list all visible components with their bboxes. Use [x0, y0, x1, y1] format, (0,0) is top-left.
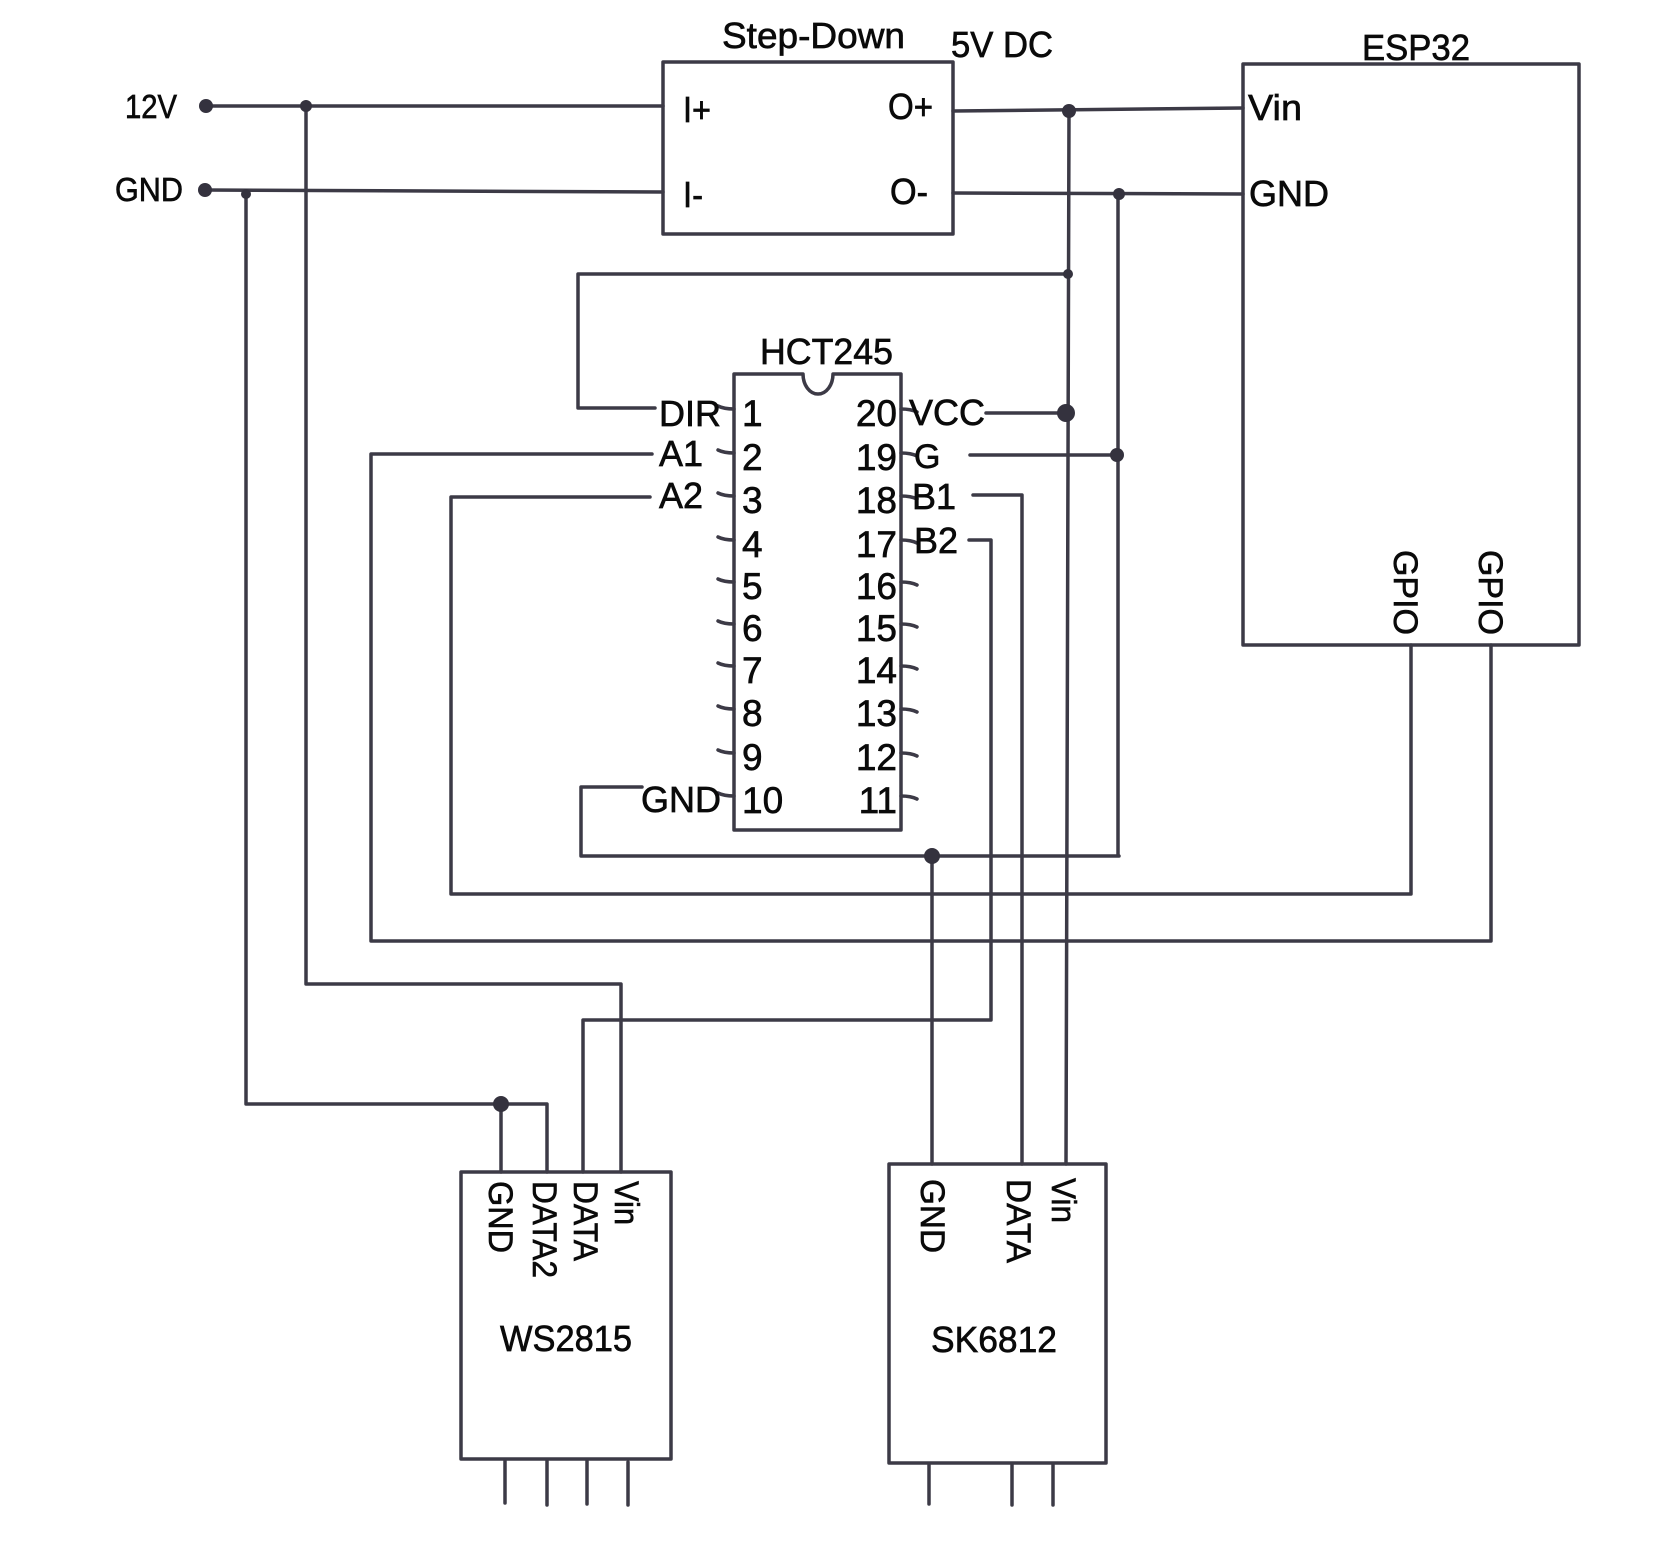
svg-text:3: 3 — [742, 480, 763, 521]
svg-text:SK6812: SK6812 — [931, 1319, 1057, 1360]
svg-text:18: 18 — [856, 480, 897, 521]
svg-text:GPIO: GPIO — [1386, 550, 1424, 635]
svg-text:9: 9 — [742, 737, 763, 778]
svg-text:B1: B1 — [912, 476, 956, 517]
svg-text:DATA2: DATA2 — [525, 1181, 563, 1278]
svg-text:8: 8 — [742, 693, 763, 734]
svg-text:Vin: Vin — [1044, 1178, 1082, 1223]
svg-text:17: 17 — [856, 524, 897, 565]
svg-text:WS2815: WS2815 — [500, 1318, 632, 1359]
svg-text:HCT245: HCT245 — [760, 331, 893, 372]
svg-text:20: 20 — [856, 393, 897, 434]
svg-text:GND: GND — [481, 1181, 519, 1253]
svg-text:5V DC: 5V DC — [951, 24, 1053, 65]
svg-text:19: 19 — [856, 437, 897, 478]
svg-text:DATA: DATA — [566, 1181, 604, 1261]
svg-text:I+: I+ — [683, 89, 711, 130]
svg-text:10: 10 — [742, 780, 783, 821]
svg-text:2: 2 — [742, 437, 763, 478]
svg-text:A1: A1 — [659, 433, 703, 474]
svg-text:G: G — [914, 438, 940, 476]
svg-text:16: 16 — [856, 566, 897, 607]
svg-text:14: 14 — [856, 650, 897, 691]
svg-text:DATA: DATA — [999, 1179, 1037, 1263]
svg-text:GND: GND — [641, 779, 721, 820]
svg-text:6: 6 — [742, 608, 763, 649]
svg-text:15: 15 — [856, 608, 897, 649]
svg-text:O-: O- — [890, 171, 928, 212]
svg-text:12V: 12V — [125, 88, 177, 125]
svg-text:11: 11 — [859, 780, 897, 821]
svg-text:5: 5 — [742, 566, 763, 607]
svg-text:13: 13 — [856, 693, 897, 734]
svg-text:VCC: VCC — [909, 392, 985, 433]
svg-text:B2: B2 — [914, 520, 958, 561]
svg-text:12: 12 — [856, 737, 897, 778]
svg-text:GPIO: GPIO — [1471, 550, 1509, 635]
svg-text:Vin: Vin — [607, 1181, 645, 1225]
svg-text:GND: GND — [1249, 173, 1329, 214]
svg-text:GND: GND — [115, 171, 183, 208]
svg-text:4: 4 — [742, 524, 763, 565]
svg-text:GND: GND — [913, 1179, 951, 1253]
svg-text:A2: A2 — [659, 475, 703, 516]
svg-text:Vin: Vin — [1248, 87, 1302, 128]
svg-text:DIR: DIR — [659, 393, 721, 434]
svg-text:1: 1 — [742, 393, 763, 434]
svg-text:I-: I- — [683, 174, 703, 215]
svg-text:ESP32: ESP32 — [1362, 27, 1470, 68]
svg-text:O+: O+ — [888, 86, 933, 127]
svg-text:7: 7 — [742, 650, 763, 691]
svg-text:Step-Down: Step-Down — [722, 15, 905, 56]
